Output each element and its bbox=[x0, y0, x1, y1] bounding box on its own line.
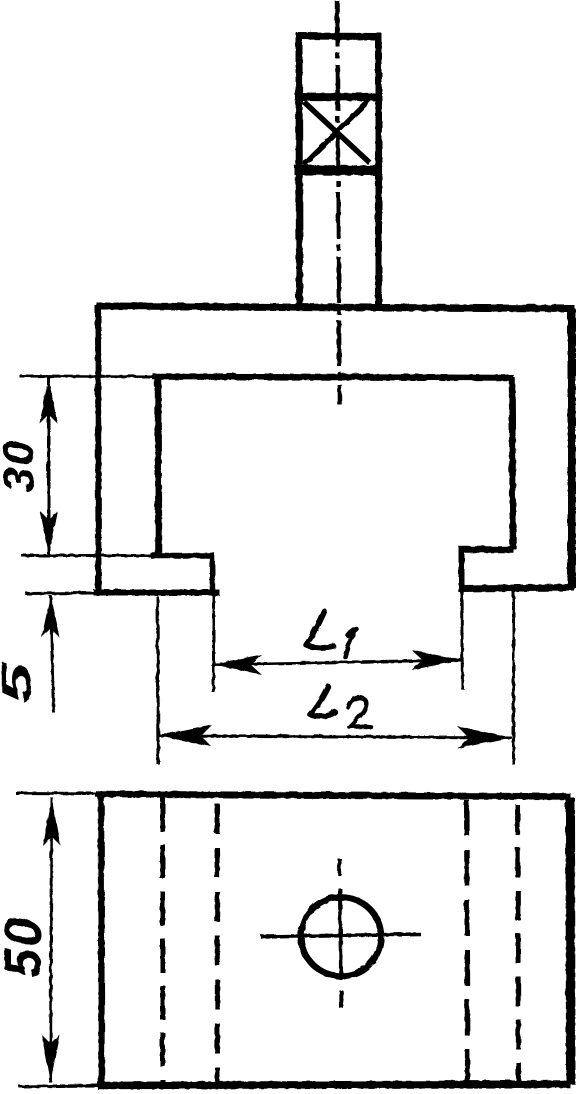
svg-text:50: 50 bbox=[0, 915, 52, 977]
svg-text:5: 5 bbox=[0, 661, 39, 703]
svg-text:30: 30 bbox=[0, 439, 43, 492]
